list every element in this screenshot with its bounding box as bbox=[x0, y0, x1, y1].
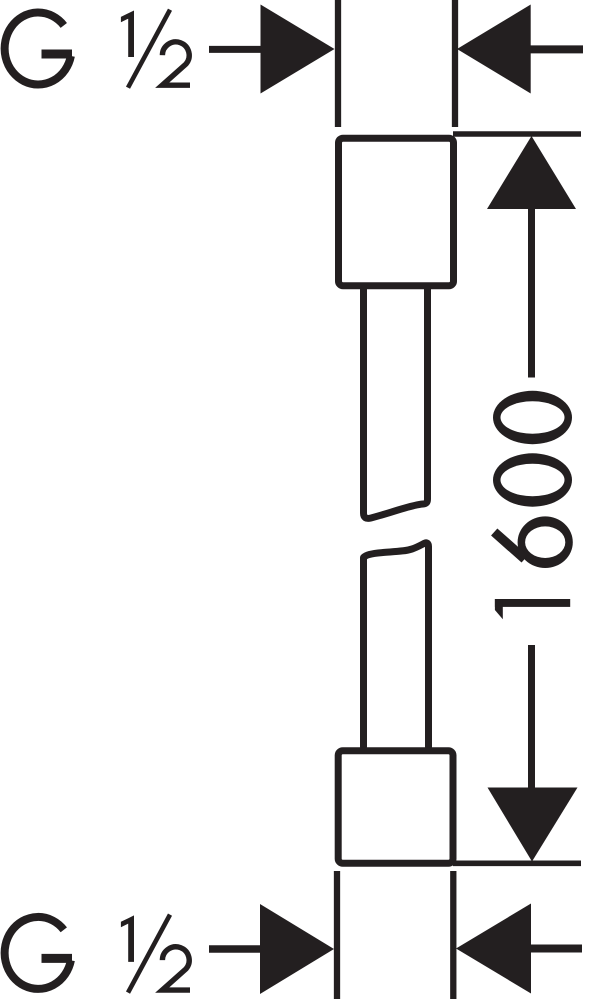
arrow line right bottom bbox=[530, 945, 582, 953]
hose upper bbox=[364, 289, 428, 518]
label 1/2 bottom: digit 2 bbox=[162, 947, 190, 990]
digit 0 (second) bbox=[493, 391, 572, 444]
arrowhead left top bbox=[261, 5, 335, 94]
digit 0 (first) bbox=[493, 453, 572, 506]
arrowhead right top bbox=[457, 5, 531, 94]
extension line top bbox=[453, 131, 581, 137]
dimension arrowhead down bbox=[488, 788, 578, 862]
label 1/2 top: fraction slash bbox=[128, 10, 170, 88]
connector line left bottom bbox=[334, 871, 340, 999]
digit 1 bbox=[495, 599, 570, 619]
dimension arrowhead up bbox=[487, 136, 576, 209]
label G bottom bbox=[5, 917, 72, 989]
connector line right bottom bbox=[450, 871, 456, 999]
label 1/2 bottom: digit 1 bbox=[121, 915, 190, 993]
extension line bottom bbox=[453, 860, 581, 866]
dimension line upper bbox=[528, 207, 535, 378]
digit 6 bbox=[494, 516, 573, 568]
arrow line left bottom bbox=[209, 945, 266, 953]
arrowhead right bottom bbox=[456, 904, 531, 994]
arrowhead left bottom bbox=[260, 904, 334, 994]
label G top bbox=[5, 13, 72, 85]
dimension line lower bbox=[528, 645, 535, 789]
connector line right top bbox=[452, 0, 458, 127]
connector line left top bbox=[335, 0, 341, 127]
label 1/2 bottom: fraction slash bbox=[128, 915, 170, 993]
arrow line left top bbox=[209, 46, 266, 53]
nut top bbox=[339, 138, 454, 286]
hose lower bbox=[364, 543, 429, 747]
label 1/2 top: digit 1 bbox=[121, 11, 134, 58]
nut bottom bbox=[338, 751, 453, 863]
arrow line right top bbox=[530, 45, 583, 53]
label 1/2 top: digit 2 bbox=[162, 42, 190, 85]
dimension text 1600 (rotated) bbox=[493, 391, 573, 619]
